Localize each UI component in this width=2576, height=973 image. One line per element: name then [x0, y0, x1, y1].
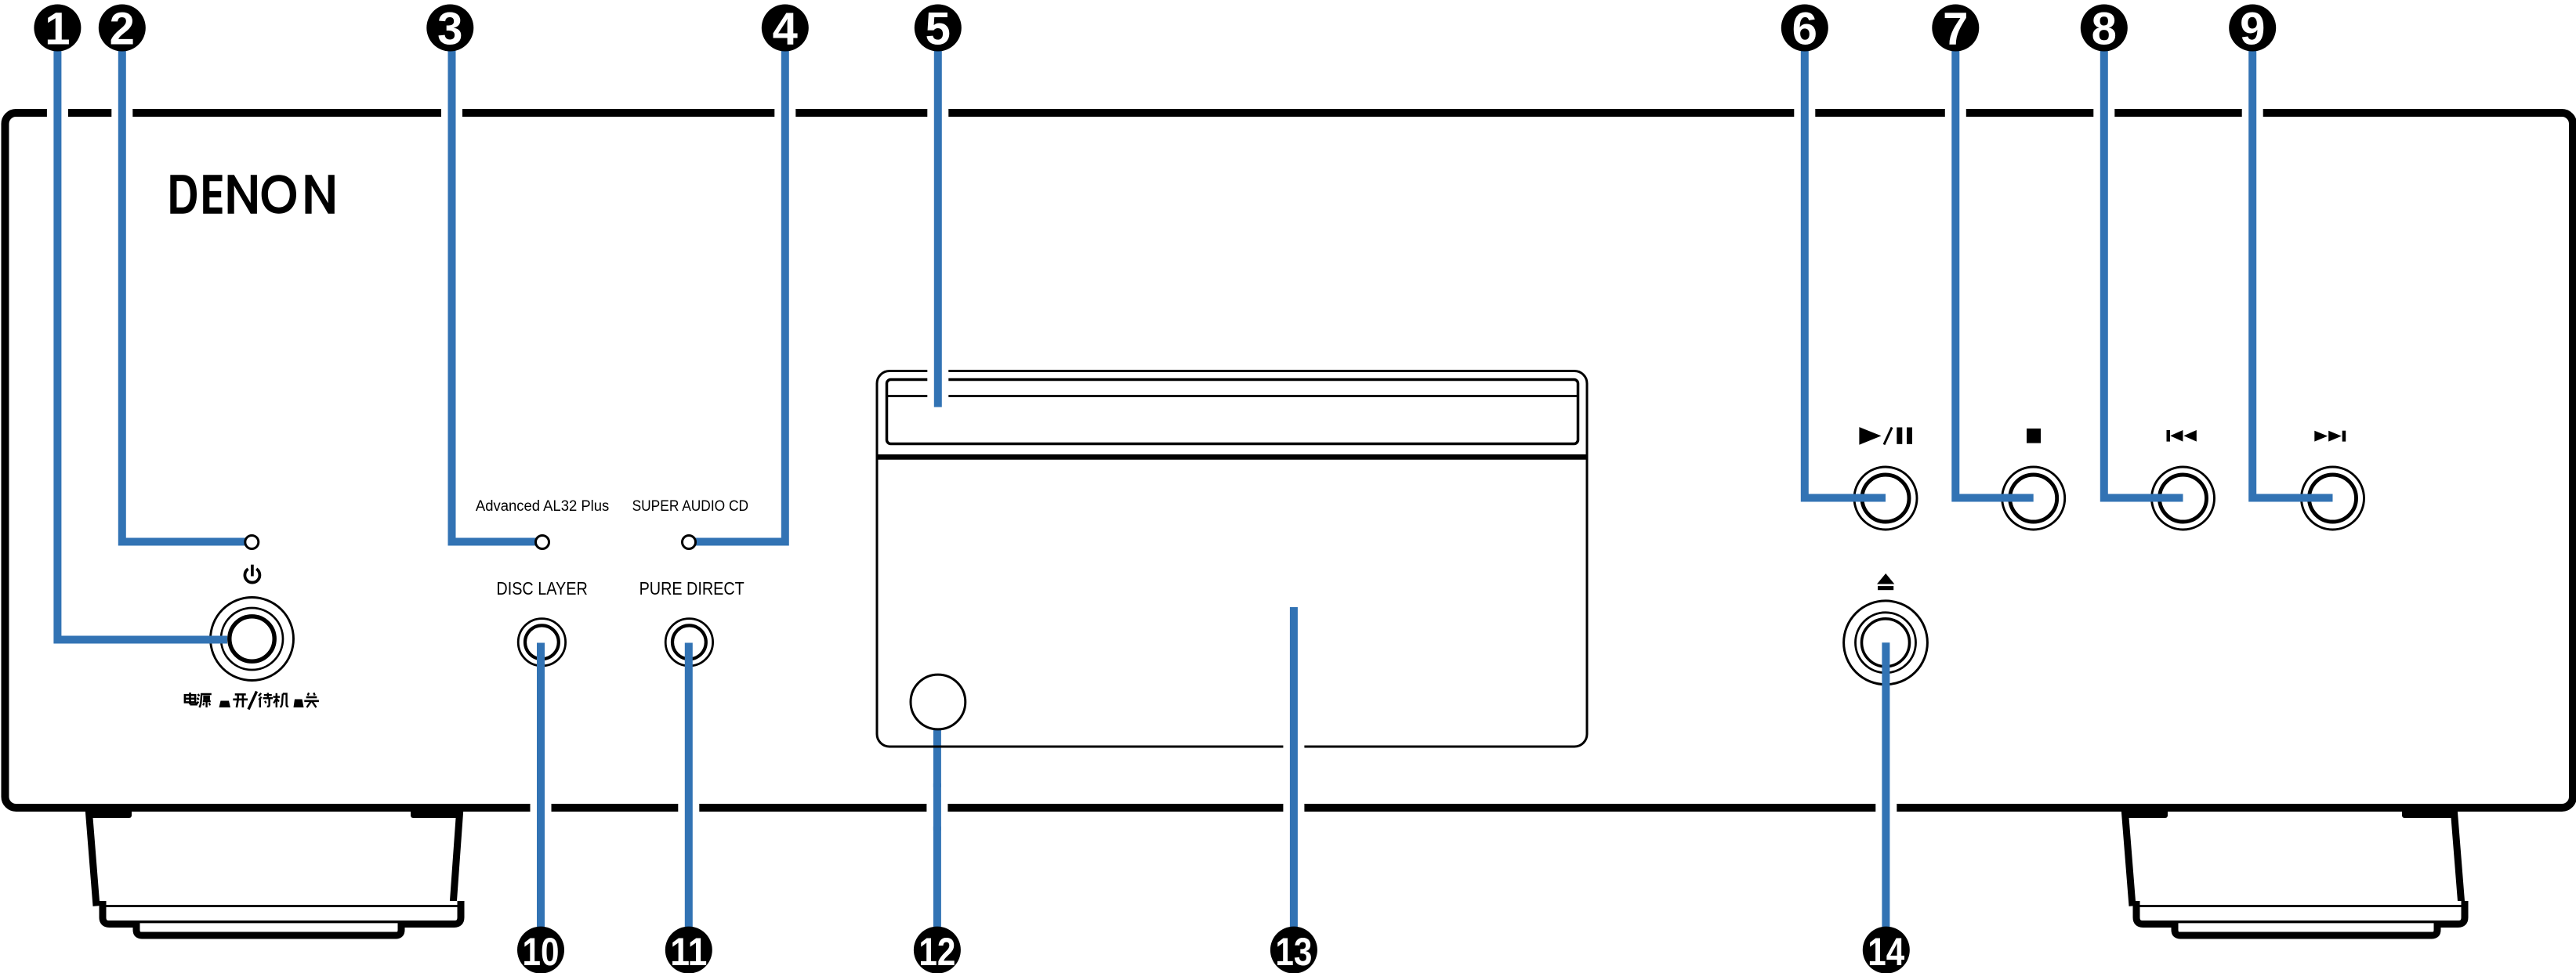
svg-text:4: 4 — [773, 4, 798, 55]
svg-text:PURE DIRECT: PURE DIRECT — [639, 578, 745, 599]
svg-text:12: 12 — [918, 930, 955, 973]
svg-text:3: 3 — [437, 4, 462, 55]
svg-text:1: 1 — [45, 4, 70, 55]
svg-text:DISC LAYER: DISC LAYER — [496, 578, 587, 599]
svg-text:10: 10 — [523, 930, 560, 973]
svg-text:8: 8 — [2092, 4, 2117, 55]
svg-text:5: 5 — [926, 4, 951, 55]
svg-text:SUPER AUDIO CD: SUPER AUDIO CD — [632, 497, 748, 515]
svg-text:6: 6 — [1792, 4, 1817, 55]
svg-text:2: 2 — [110, 4, 135, 55]
svg-text:13: 13 — [1275, 930, 1312, 973]
svg-text:7: 7 — [1943, 4, 1968, 55]
svg-text:9: 9 — [2240, 4, 2265, 55]
svg-text:14: 14 — [1868, 930, 1904, 973]
svg-text:Advanced AL32 Plus: Advanced AL32 Plus — [476, 497, 610, 515]
svg-text:11: 11 — [670, 930, 707, 973]
